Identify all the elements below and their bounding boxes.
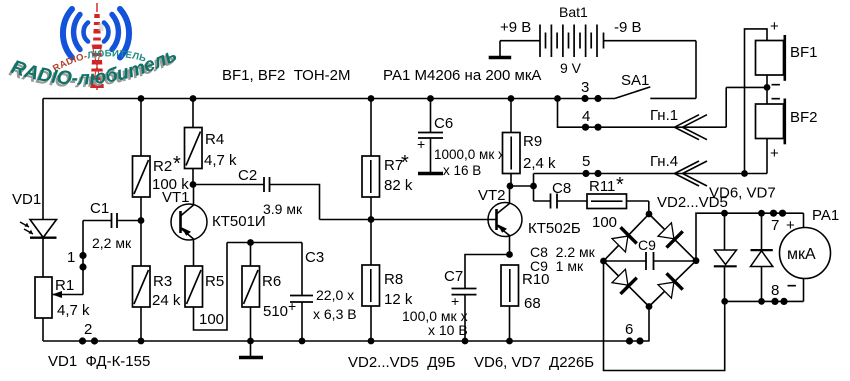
svg-text:510: 510 [263, 303, 288, 320]
logo tower [89, 3, 105, 90]
svg-text:R5: R5 [205, 273, 224, 290]
capacitor C2 [193, 167, 320, 220]
svg-text:С9: С9 [638, 237, 656, 253]
resistor R2 [133, 99, 190, 221]
bridge left corner loop wire [604, 261, 725, 371]
svg-text:VD2...VD5 Д9Б: VD2...VD5 Д9Б [348, 354, 456, 371]
svg-text:Bat1: Bat1 [559, 4, 588, 20]
svg-text:R10: R10 [522, 271, 550, 288]
svg-text:+: + [770, 18, 779, 35]
resistor R5 [185, 266, 224, 328]
VD7 diode [751, 213, 773, 301]
svg-text:R2: R2 [153, 158, 172, 175]
svg-text:х 10 В: х 10 В [428, 322, 468, 338]
logo [6, 3, 180, 92]
svg-text:4,7 k: 4,7 k [57, 302, 90, 319]
top rail [43, 98, 615, 100]
svg-text:24 k: 24 k [152, 292, 181, 309]
svg-text:100: 100 [592, 214, 617, 231]
svg-text:C6: C6 [434, 115, 453, 132]
switch SA1 [581, 72, 696, 102]
svg-text:x 6,3 В: x 6,3 В [313, 306, 357, 322]
resistor R7 [362, 99, 413, 220]
svg-text:100: 100 [199, 311, 224, 328]
transistor VT1 [162, 185, 266, 267]
capacitor C3 [288, 243, 357, 342]
svg-text:+: + [770, 145, 779, 162]
svg-text:РА1 М4206 на 200 мкА: РА1 М4206 на 200 мкА [383, 67, 541, 84]
logo small text [55, 56, 146, 72]
svg-text:R8: R8 [384, 271, 403, 288]
meter PA1 [780, 207, 840, 301]
bridge diode VD top-left [611, 227, 637, 253]
capacitor C1 [83, 200, 141, 251]
potentiometer R1 [35, 277, 90, 319]
svg-text:3: 3 [581, 79, 589, 96]
node 2 pins [79, 321, 98, 345]
svg-text:BF1: BF1 [790, 44, 818, 61]
svg-text:Гн.4: Гн.4 [650, 153, 678, 170]
svg-text:9 V: 9 V [560, 60, 582, 76]
svg-text:+: + [451, 293, 459, 309]
capacitor C8 [534, 180, 588, 209]
bridge diode VD bottom-left [611, 268, 637, 294]
capacitor C6 [417, 99, 505, 179]
svg-text:R6: R6 [262, 273, 281, 290]
logo big text [10, 60, 176, 85]
svg-text:*: * [401, 152, 409, 174]
svg-text:VT1: VT1 [162, 189, 190, 206]
left rail wire [42, 99, 44, 220]
svg-text:8: 8 [771, 282, 779, 299]
top meter row dots / pins 7 [721, 210, 795, 234]
svg-text:BF2: BF2 [790, 109, 818, 126]
svg-text:*: * [616, 174, 624, 196]
bridge bottom to rail / node 6 [625, 307, 649, 345]
svg-text:82 k: 82 k [384, 177, 413, 194]
svg-text:2,2 мк: 2,2 мк [92, 235, 132, 251]
speaker BF1 [726, 18, 817, 177]
resistor R10 [501, 265, 550, 341]
svg-text:VD1: VD1 [12, 191, 41, 208]
wire R6 row [227, 242, 302, 244]
battery minus down wire [695, 41, 697, 99]
svg-text:3.9 мк: 3.9 мк [263, 201, 303, 217]
resistor R3 [133, 221, 181, 342]
bottom rail [43, 340, 650, 342]
capacitor C7 [402, 251, 513, 341]
node 1 pins [67, 221, 87, 295]
svg-text:BF1, BF2 ТОН-2М: BF1, BF2 ТОН-2М [222, 67, 351, 84]
VD6 diode [714, 213, 737, 301]
svg-text:КТ502Б: КТ502Б [528, 220, 581, 237]
transistor VT2 [478, 186, 581, 255]
pin 5 row (Gn.4) [534, 153, 768, 177]
photodiode VD1 [12, 191, 57, 238]
svg-text:Гн.1: Гн.1 [650, 107, 678, 124]
svg-text:VD6, VD7 Д226Б: VD6, VD7 Д226Б [474, 354, 594, 371]
resistor R4 [185, 99, 238, 185]
VT2 collector node wires [507, 174, 537, 202]
svg-text:R3: R3 [153, 273, 172, 290]
base wire row VT1-VT2 [320, 219, 497, 221]
resistor R11 [587, 174, 649, 231]
resistor R6 [242, 243, 288, 342]
svg-text:–: – [787, 275, 796, 294]
battery Bat1 [500, 4, 696, 76]
svg-text:+: + [288, 298, 296, 314]
svg-text:12 k: 12 k [384, 291, 413, 308]
svg-text:х 16 В: х 16 В [443, 163, 481, 178]
svg-text:+: + [417, 136, 425, 152]
svg-text:+9 В: +9 В [500, 19, 531, 36]
svg-text:R11: R11 [589, 178, 615, 195]
svg-text:68: 68 [524, 295, 541, 312]
jack Gn.1 [650, 107, 707, 140]
junction dots middle [138, 181, 375, 224]
svg-text:КТ501И: КТ501И [212, 213, 266, 230]
svg-text:C1: C1 [90, 200, 109, 217]
bottom meter row dots / pins 8 [721, 275, 803, 305]
svg-text:2: 2 [84, 321, 92, 338]
svg-text:R4: R4 [205, 131, 224, 148]
svg-text:4,7 k: 4,7 k [204, 152, 237, 169]
svg-text:C3: C3 [305, 249, 324, 266]
diode bridge VD2...VD5 [600, 194, 728, 310]
svg-text:SA1: SA1 [621, 72, 649, 89]
wire R5 bottom to R6 row [194, 243, 228, 331]
junction dots top rail [138, 95, 515, 102]
junction dots bottom rail [138, 338, 513, 345]
svg-text:6: 6 [625, 321, 633, 338]
svg-text:мкА: мкА [787, 246, 816, 263]
svg-text:1000,0 мк х: 1000,0 мк х [434, 147, 505, 162]
ground under R6 [239, 341, 263, 358]
C9 in bridge [604, 260, 647, 262]
svg-text:VD6, VD7: VD6, VD7 [709, 185, 776, 202]
svg-text:5: 5 [582, 153, 590, 170]
svg-text:VT2: VT2 [478, 187, 506, 204]
svg-text:–: – [771, 88, 780, 107]
svg-text:R1: R1 [55, 277, 74, 294]
svg-text:PA1: PA1 [812, 207, 839, 224]
svg-text:*: * [173, 153, 181, 175]
svg-text:C2: C2 [238, 167, 257, 184]
svg-text:1: 1 [67, 249, 75, 266]
svg-text:4: 4 [582, 108, 590, 125]
svg-text:22,0 x: 22,0 x [316, 287, 354, 303]
speaker BF2 [756, 87, 818, 173]
svg-text:R9: R9 [523, 133, 542, 150]
jack Gn.4 [650, 153, 707, 186]
svg-text:C7: C7 [444, 268, 463, 285]
resistor R8 [362, 220, 413, 342]
svg-text:2,4 k: 2,4 k [523, 155, 556, 172]
svg-text:-9 В: -9 В [614, 19, 642, 36]
bridge right corner wire up [696, 213, 804, 261]
bridge frame [649, 214, 696, 261]
bridge diode VD top-right [657, 221, 683, 247]
bridge diode VD bottom-right [657, 273, 683, 299]
svg-text:7: 7 [771, 217, 779, 234]
resistor R9 [503, 99, 557, 187]
ground bar at +9V [489, 41, 512, 58]
logo arcs [63, 9, 129, 58]
svg-text:VD1 ФД-К-155: VD1 ФД-К-155 [48, 353, 150, 370]
pin 4 row (Gn.1) [554, 95, 726, 131]
svg-text:C8: C8 [552, 180, 571, 197]
